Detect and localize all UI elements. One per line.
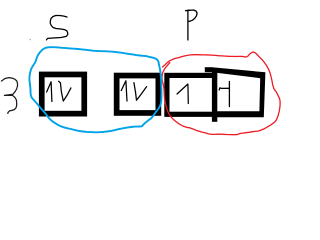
box 4 mark 7 bbox=[219, 88, 229, 90]
box 2 bbox=[117, 76, 159, 113]
label S bbox=[46, 16, 67, 40]
box 1 bbox=[42, 74, 85, 113]
label P bbox=[186, 10, 198, 40]
box 1 mark v bbox=[59, 81, 71, 101]
box 1 mark 1 bbox=[47, 82, 52, 102]
box 3 mark 1 bbox=[177, 84, 188, 104]
box 4 top border overhang bbox=[205, 67, 213, 72]
box 4 bbox=[212, 67, 266, 117]
box 3 bbox=[167, 75, 215, 114]
box 2 mark 1 bbox=[121, 81, 127, 101]
set S loop (blue) bbox=[29, 47, 161, 132]
box 2 mark v bbox=[134, 83, 147, 101]
stray dot bbox=[30, 39, 31, 40]
box 3/4 shared border overshoot bbox=[212, 117, 217, 122]
digit 3 bbox=[2, 78, 18, 114]
set P loop (red) bbox=[162, 52, 280, 135]
